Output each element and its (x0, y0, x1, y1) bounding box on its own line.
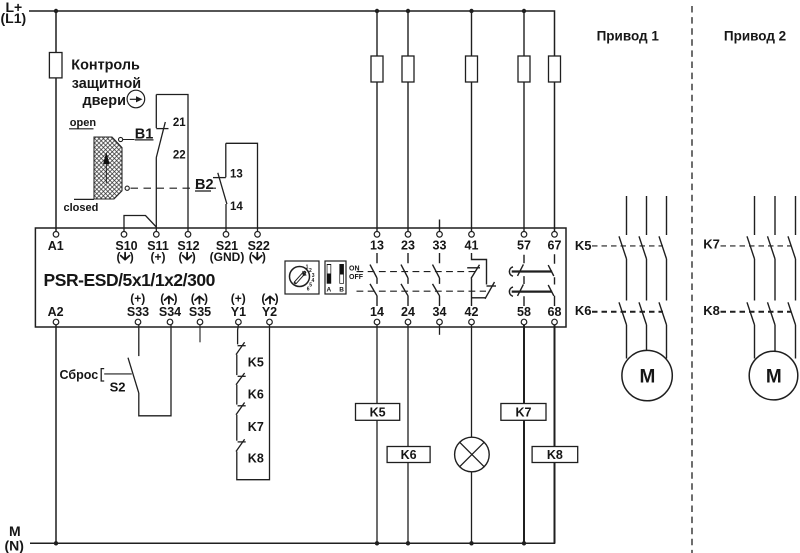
svg-text:(: ( (117, 250, 121, 264)
svg-text:34: 34 (433, 305, 447, 319)
svg-text:K6: K6 (248, 388, 264, 402)
svg-text:PSR-ESD/5x1/1x2/300: PSR-ESD/5x1/1x2/300 (44, 270, 216, 290)
svg-text:13: 13 (230, 169, 243, 181)
svg-text:A2: A2 (48, 305, 64, 319)
svg-text:Y2: Y2 (262, 305, 277, 319)
svg-text:K5: K5 (370, 405, 386, 419)
svg-text:(GND): (GND) (210, 250, 245, 264)
svg-text:58: 58 (517, 305, 531, 319)
svg-text:Контроль: Контроль (71, 58, 140, 74)
svg-text:14: 14 (370, 305, 384, 319)
svg-text:A1: A1 (48, 239, 64, 253)
svg-text:K8: K8 (248, 452, 264, 466)
svg-text:M: M (639, 367, 655, 388)
svg-text:14: 14 (230, 201, 243, 213)
svg-text:): ) (174, 291, 178, 305)
svg-text:K7: K7 (516, 405, 532, 419)
svg-text:S33: S33 (127, 305, 149, 319)
svg-text:K7: K7 (703, 236, 720, 251)
svg-text:S34: S34 (159, 305, 181, 319)
svg-text:41: 41 (465, 238, 479, 252)
svg-text:K7: K7 (248, 420, 264, 434)
svg-text:защитной: защитной (72, 76, 141, 92)
svg-text:(: ( (249, 250, 253, 264)
svg-text:K5: K5 (575, 238, 592, 253)
svg-text:67: 67 (548, 238, 562, 252)
svg-text:OFF: OFF (349, 274, 364, 281)
svg-text:24: 24 (401, 305, 415, 319)
svg-text:68: 68 (548, 305, 562, 319)
svg-text:(+): (+) (231, 291, 246, 305)
svg-text:S35: S35 (189, 305, 211, 319)
svg-text:): ) (262, 250, 266, 264)
svg-text:closed: closed (64, 202, 99, 214)
svg-text:): ) (204, 291, 208, 305)
svg-text:21: 21 (173, 117, 186, 129)
svg-text:Привод 2: Привод 2 (724, 28, 786, 43)
svg-text:): ) (130, 250, 134, 264)
svg-text:(L1): (L1) (1, 10, 27, 26)
svg-text:): ) (275, 291, 279, 305)
svg-text:K8: K8 (547, 448, 563, 462)
svg-text:K8: K8 (703, 303, 720, 318)
svg-text:): ) (192, 250, 196, 264)
svg-text:33: 33 (433, 238, 447, 252)
svg-text:open: open (70, 117, 97, 129)
svg-text:A: A (327, 286, 332, 293)
svg-text:(+): (+) (151, 250, 166, 264)
svg-text:K5: K5 (248, 355, 264, 369)
svg-text:Сброс: Сброс (60, 368, 99, 382)
svg-text:22: 22 (173, 150, 186, 162)
svg-text:(: ( (191, 291, 195, 305)
svg-text:(: ( (261, 291, 265, 305)
svg-text:(+): (+) (130, 291, 145, 305)
svg-text:M: M (766, 367, 782, 388)
svg-text:13: 13 (370, 238, 384, 252)
svg-text:42: 42 (465, 305, 479, 319)
svg-text:(N): (N) (5, 538, 24, 553)
svg-text:S2: S2 (110, 380, 126, 395)
svg-text:K6: K6 (401, 448, 417, 462)
svg-text:двери: двери (83, 93, 126, 109)
svg-text:Привод 1: Привод 1 (597, 28, 660, 43)
svg-text:B: B (339, 286, 344, 293)
svg-text:(: ( (179, 250, 183, 264)
svg-text:57: 57 (517, 238, 531, 252)
svg-text:6: 6 (307, 287, 310, 293)
svg-text:(: ( (160, 291, 164, 305)
svg-text:5: 5 (309, 283, 312, 289)
svg-text:23: 23 (401, 238, 415, 252)
svg-text:K6: K6 (575, 303, 592, 318)
svg-text:Y1: Y1 (231, 305, 246, 319)
